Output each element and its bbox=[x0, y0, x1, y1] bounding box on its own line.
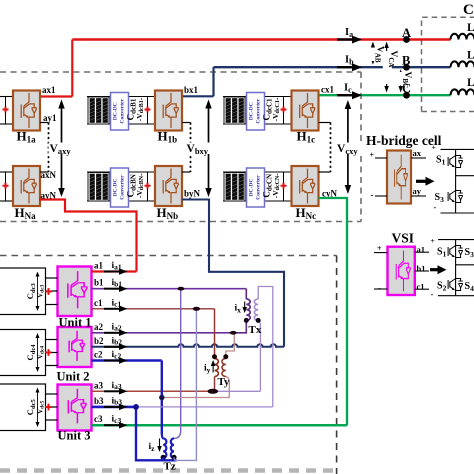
svg-text:-: - bbox=[434, 202, 437, 212]
svg-text:DC-DC: DC-DC bbox=[249, 178, 255, 196]
svg-text:a3: a3 bbox=[94, 380, 104, 390]
svg-text:c1: c1 bbox=[94, 298, 103, 308]
svg-text:Unit 2: Unit 2 bbox=[57, 370, 90, 384]
svg-text:-: - bbox=[378, 283, 381, 293]
svg-text:Ty: Ty bbox=[218, 376, 231, 388]
svg-text:ax: ax bbox=[413, 148, 422, 158]
svg-text:VSI: VSI bbox=[392, 231, 415, 246]
svg-text:c3: c3 bbox=[94, 414, 103, 424]
svg-text:L: L bbox=[467, 22, 474, 34]
svg-text:A: A bbox=[402, 26, 411, 40]
svg-text:iy: iy bbox=[204, 364, 211, 375]
svg-text:b2: b2 bbox=[94, 336, 104, 346]
svg-text:b3: b3 bbox=[94, 396, 104, 406]
svg-text:ay1: ay1 bbox=[43, 113, 57, 123]
svg-text:+: + bbox=[370, 151, 375, 160]
svg-text:a2: a2 bbox=[94, 322, 104, 332]
svg-text:DC-DC: DC-DC bbox=[249, 102, 255, 120]
svg-text:a1: a1 bbox=[94, 261, 104, 271]
svg-text:axN: axN bbox=[41, 170, 57, 180]
svg-text:-: - bbox=[371, 190, 374, 200]
svg-text:byN: byN bbox=[184, 189, 201, 199]
svg-text:Tx: Tx bbox=[249, 324, 262, 336]
svg-text:cx1: cx1 bbox=[321, 85, 334, 95]
svg-text:Unit 3: Unit 3 bbox=[58, 429, 91, 443]
svg-text:a1: a1 bbox=[417, 245, 426, 255]
svg-text:C: C bbox=[463, 2, 474, 18]
svg-text:+: + bbox=[377, 244, 382, 253]
svg-text:DC-DC: DC-DC bbox=[113, 178, 119, 196]
svg-text:c2: c2 bbox=[94, 350, 103, 360]
svg-text:b1: b1 bbox=[417, 264, 426, 274]
svg-text:ix: ix bbox=[235, 304, 242, 315]
svg-text:Unit 1: Unit 1 bbox=[59, 316, 92, 330]
svg-text:c1: c1 bbox=[417, 282, 425, 292]
svg-text:iz: iz bbox=[149, 442, 156, 453]
svg-text:L: L bbox=[467, 77, 474, 89]
svg-text:H-bridge cell: H-bridge cell bbox=[366, 133, 442, 148]
svg-text:b1: b1 bbox=[94, 278, 104, 288]
svg-text:ax1: ax1 bbox=[42, 85, 56, 95]
svg-text:+: + bbox=[432, 143, 436, 152]
svg-text:bx1: bx1 bbox=[184, 85, 199, 95]
svg-text:L: L bbox=[467, 50, 474, 62]
svg-text:Tz: Tz bbox=[164, 461, 176, 473]
svg-text:+: + bbox=[431, 236, 435, 245]
svg-text:B: B bbox=[402, 54, 410, 68]
svg-text:DC-DC: DC-DC bbox=[113, 102, 119, 120]
svg-text:-: - bbox=[431, 289, 434, 299]
svg-text:ay: ay bbox=[413, 186, 422, 196]
